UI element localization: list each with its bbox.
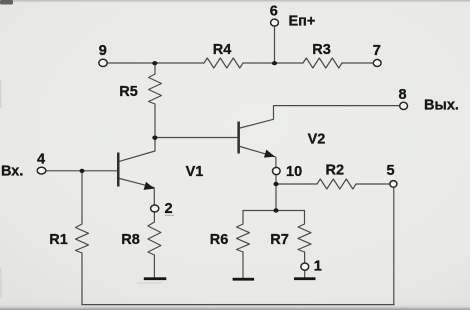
resistor R5 <box>149 74 162 104</box>
wire R6 top lead <box>242 211 244 225</box>
wire R6 to ground <box>242 252 244 278</box>
terminal node 6 <box>271 19 279 26</box>
svg-text:V1: V1 <box>186 164 204 180</box>
wire R7 to node1 <box>304 252 306 263</box>
ground under R7 <box>294 277 316 280</box>
svg-text:1: 1 <box>314 259 322 275</box>
resistor R1 <box>76 224 89 253</box>
wire top rail left (node9 to R4) <box>108 62 205 64</box>
svg-text:R2: R2 <box>326 163 345 179</box>
junction node at V1 base <box>80 169 85 173</box>
svg-text:V2: V2 <box>308 132 326 148</box>
wire R1 top lead <box>81 171 83 224</box>
svg-text:2: 2 <box>165 201 173 217</box>
junction node at R6-R7 connector <box>273 208 278 212</box>
terminal node 4 <box>37 167 46 174</box>
wire node6 drop <box>274 27 276 64</box>
left edge smudge lower <box>0 268 2 298</box>
transistor V2 collector <box>240 106 274 128</box>
left edge smudge upper <box>0 80 2 108</box>
svg-text:5: 5 <box>387 163 395 179</box>
transistor V2 base bar <box>237 122 240 154</box>
wire mid rail to V2 base <box>155 137 238 139</box>
svg-text:6: 6 <box>270 4 278 20</box>
svg-text:Вх.: Вх. <box>1 163 23 179</box>
wire R2 to node5 <box>356 183 390 185</box>
resistor R6 <box>237 224 250 252</box>
wire R6-R7 connector <box>243 210 305 212</box>
svg-text:R4: R4 <box>213 42 232 58</box>
resistor R7 <box>298 224 311 252</box>
resistor R2 <box>317 179 356 189</box>
wire node10 column <box>275 175 277 211</box>
terminal node 7 <box>373 60 381 67</box>
svg-text:7: 7 <box>373 43 381 59</box>
wire node1 to ground <box>304 270 306 277</box>
terminal node 8 <box>400 102 408 109</box>
wire node2 to R8 <box>153 212 155 222</box>
svg-text:Вых.: Вых. <box>424 98 459 114</box>
ground under R8 <box>144 277 167 280</box>
svg-text:R1: R1 <box>49 232 68 248</box>
transistor V1 collector <box>120 138 155 162</box>
svg-text:R8: R8 <box>121 232 140 248</box>
wire V2 emitter to node10 <box>275 158 277 168</box>
svg-text:8: 8 <box>399 87 407 103</box>
wire node5 drop <box>393 188 395 305</box>
svg-text:4: 4 <box>37 152 45 168</box>
transistor V1 emitter arrow <box>144 182 155 190</box>
transistor V1 emitter <box>120 179 155 188</box>
junction node at node6 base <box>272 61 277 65</box>
resistor R4 <box>204 58 243 68</box>
wire R4 to R3 <box>243 62 303 64</box>
svg-text:10: 10 <box>286 164 302 180</box>
wire R8 to ground <box>153 255 155 277</box>
transistor V2 emitter <box>240 147 275 157</box>
underline mark below label 2 <box>165 215 175 216</box>
svg-text:R5: R5 <box>119 84 138 100</box>
terminal node 9 <box>99 59 107 66</box>
bottom edge shading <box>0 300 470 310</box>
terminal node 10 <box>273 167 281 174</box>
wire R1 bottom to rail <box>81 253 83 305</box>
terminal node 1 <box>301 263 309 270</box>
wire bottom rail <box>82 304 394 306</box>
resistor R8 <box>148 222 161 255</box>
top-left corner smudge <box>0 0 13 5</box>
transistor V2 emitter arrow <box>264 150 275 158</box>
wire R2 left lead <box>276 183 317 185</box>
svg-text:R7: R7 <box>270 232 289 248</box>
resistor R3 <box>303 58 342 68</box>
junction node at R5 top <box>152 61 157 65</box>
terminal node 2 <box>151 205 159 212</box>
junction node at R2 branch <box>273 182 278 186</box>
wire node4 to V1 base <box>46 170 118 172</box>
wire R7 top lead <box>304 211 306 225</box>
svg-text:9: 9 <box>99 43 107 59</box>
faint smudge above bottom rail <box>137 282 162 283</box>
junction node at V1 collector <box>152 136 157 140</box>
ground under R6 <box>233 278 255 281</box>
wire R3 to node7 <box>342 62 373 64</box>
terminal node 5 <box>390 181 397 188</box>
wire R5 bottom lead <box>154 104 156 138</box>
svg-text:R3: R3 <box>312 42 331 58</box>
svg-text:R6: R6 <box>210 232 229 248</box>
transistor V1 base bar <box>117 153 120 187</box>
svg-text:Еп+: Еп+ <box>289 13 316 29</box>
wire V1 emitter to node2 <box>153 189 155 205</box>
wire V2 collector to node8 <box>274 105 400 107</box>
wire R5 top lead <box>154 63 156 74</box>
top edge shading <box>0 0 470 3</box>
